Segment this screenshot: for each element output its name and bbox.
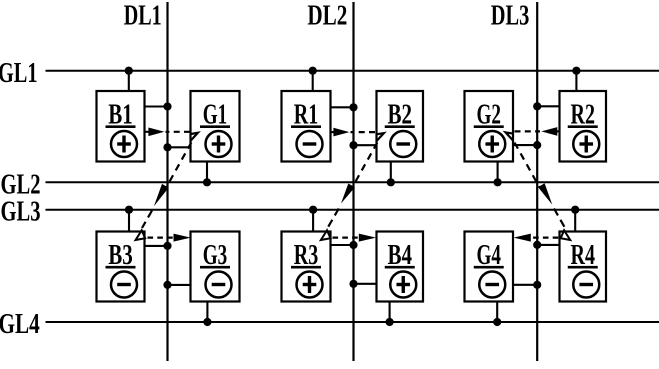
- arrowhead on G2-R4 diagonal: [538, 183, 552, 205]
- junction dot on GL1 at R2: [572, 67, 580, 75]
- arrowhead on B2-R3 diagonal: [341, 184, 355, 204]
- wire B4 gate stub to GL4: [389, 302, 391, 323]
- dashed wire G2 to R4 diagonal upper: [515, 143, 540, 188]
- pixel electrode B3 (polarity -): [97, 232, 145, 302]
- wire G2 to DL3: [513, 144, 537, 146]
- pixel electrode B2 (polarity -): [377, 91, 424, 162]
- junction dot on DL2 at B2 tap: [349, 141, 357, 149]
- junction dot on GL3 at B3: [125, 206, 133, 214]
- dashed wire B1-G1 arrow shaft: [166, 131, 191, 133]
- svg-text:GL3: GL3: [1, 197, 41, 228]
- gate line GL1 (wire): [46, 70, 659, 72]
- wire B1 to DL1: [145, 105, 168, 107]
- open arrowhead at B2: [377, 133, 384, 141]
- dashed wire G1 to B3 diagonal lower: [142, 211, 152, 229]
- junction dot on GL4 at G4: [493, 318, 501, 326]
- wire B3 to DL1: [145, 245, 168, 247]
- wire R2 gate stub to GL1: [575, 71, 577, 91]
- pixel electrode B4 (polarity +): [377, 232, 424, 302]
- junction dot on DL2 at R1 tap: [349, 103, 357, 111]
- wire R3 gate stub to GL3: [312, 210, 314, 232]
- wire B1 gate stub to GL1: [128, 71, 130, 91]
- arrowhead from B1 toward DL1: [148, 128, 164, 137]
- wire DL2 to B4: [354, 283, 377, 285]
- wire B1 edge to arrow base: [145, 131, 149, 133]
- pixel electrode G4 (polarity -): [465, 232, 514, 302]
- pixel electrode R3 (polarity +): [282, 232, 331, 302]
- junction dot on GL2 at G2: [494, 178, 502, 186]
- data line DL1 (wire): [166, 2, 168, 361]
- pixel electrode G3 (polarity -): [191, 232, 240, 302]
- junction dot on DL3 at R2 tap: [533, 102, 541, 110]
- dashed wire B2 to R3 diagonal upper: [353, 143, 378, 188]
- wire G2 gate stub to GL2: [497, 162, 499, 183]
- dashed wire R3 to B4 arrow shaft: [333, 237, 359, 239]
- gate line GL4 (wire): [46, 321, 659, 323]
- wire DL1 to G1: [168, 146, 191, 148]
- pixel electrode R2 (polarity +): [560, 91, 607, 162]
- junction dot on GL4 at B4: [386, 318, 394, 326]
- gate line GL2 (wire): [46, 181, 659, 183]
- arrowhead on G1-B3 diagonal: [154, 184, 169, 206]
- data line DL2 (wire): [352, 2, 354, 361]
- pixel electrode R1 (polarity -): [282, 91, 331, 162]
- wire G3 gate stub to GL4: [206, 302, 208, 323]
- junction dot on DL3 at G4 tap: [533, 281, 541, 289]
- open triangle at B3 corner: [136, 230, 146, 240]
- pixel electrode R4 (polarity -): [560, 232, 607, 302]
- dashed wire R1-B2 arrow shaft: [351, 131, 376, 133]
- wire R2 edge to arrow base: [557, 130, 560, 132]
- pixel electrode B1 (polarity +): [97, 91, 145, 162]
- open arrowhead at G1: [191, 133, 198, 141]
- wire R1 gate stub to GL1: [312, 71, 314, 91]
- junction dot on DL2 at B4 tap: [349, 280, 357, 288]
- pixel electrode G2 (polarity +): [465, 91, 514, 162]
- dashed wire G2 to R4 diagonal lower: [554, 209, 565, 228]
- dashed wire B3 to G3 arrow shaft: [148, 237, 174, 239]
- wire G4 to DL3: [513, 284, 537, 286]
- junction dot on GL4 at G3: [203, 318, 211, 326]
- open triangle at R3 corner: [321, 230, 331, 240]
- wire B3 gate stub to GL3: [128, 210, 130, 232]
- wire R3 to DL2: [331, 244, 354, 246]
- wire R1 to DL2: [331, 106, 354, 108]
- gate line GL3 (wire): [46, 209, 659, 211]
- junction dot on DL3 at G2 tap: [533, 141, 541, 149]
- svg-text:DL3: DL3: [491, 1, 530, 32]
- open triangle at R4 corner: [561, 230, 571, 240]
- junction dot on DL3 at R4 tap: [533, 241, 541, 249]
- junction dot on DL1 at B1 tap: [163, 102, 171, 110]
- arrowhead from R2 toward DL3: [541, 127, 557, 136]
- junction dot on GL1 at R1: [309, 67, 317, 75]
- junction dot on GL1 at B1: [125, 67, 133, 75]
- wire G1 gate stub to GL2: [206, 162, 208, 183]
- wire DL3 to R2: [537, 105, 559, 107]
- open arrowhead at G2: [506, 132, 513, 140]
- junction dot on GL3 at R3: [309, 206, 317, 214]
- wire G4 gate stub to GL4: [496, 302, 498, 323]
- svg-text:GL1: GL1: [0, 58, 38, 89]
- junction dot on DL1 at B3 tap: [163, 242, 171, 250]
- junction dot on DL1 at G3 tap: [163, 281, 171, 289]
- arrowhead into G4: [514, 234, 531, 242]
- junction dot on GL2 at B2: [387, 178, 395, 186]
- wire R4 gate stub to GL3: [574, 210, 576, 232]
- junction dot on DL1 at G1 tap: [163, 143, 171, 151]
- wire B2 gate stub to GL2: [390, 162, 392, 183]
- dashed wire G1 to B3 diagonal upper: [167, 143, 192, 188]
- arrowhead into G3: [174, 234, 191, 242]
- dashed wire G2-R2 arrow shaft: [515, 130, 541, 132]
- svg-text:DL2: DL2: [307, 1, 347, 32]
- dashed wire R4 to G4 arrow shaft: [532, 237, 558, 239]
- dashed wire B2 to R3 diagonal lower: [328, 209, 339, 229]
- pixel electrode G1 (polarity +): [191, 91, 240, 162]
- junction dot on GL2 at G1: [203, 178, 211, 186]
- junction dot on DL2 at R3 tap: [349, 241, 357, 249]
- wire DL3 to R4: [537, 244, 559, 246]
- svg-text:GL4: GL4: [0, 309, 40, 340]
- wire DL1 to G3: [168, 284, 191, 286]
- svg-text:DL1: DL1: [124, 1, 162, 32]
- arrowhead into B4: [359, 234, 376, 242]
- wire DL2 to B2: [354, 144, 377, 146]
- arrowhead from R1 toward DL2: [333, 128, 349, 137]
- junction dot on GL3 at R4: [571, 206, 579, 214]
- wire R1 edge to arrow base: [331, 131, 334, 133]
- data line DL3 (wire): [536, 2, 538, 361]
